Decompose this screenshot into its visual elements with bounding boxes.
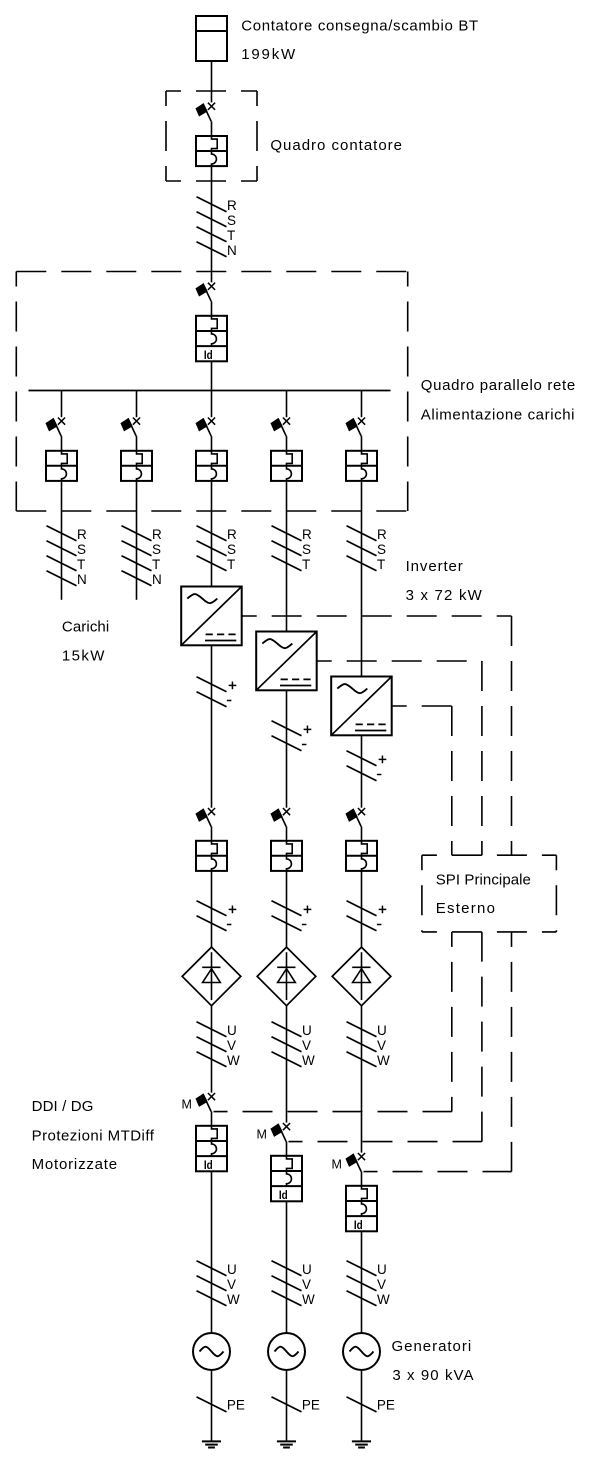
svg-text:S: S	[227, 213, 236, 228]
svg-text:N: N	[227, 243, 237, 258]
svg-text:M: M	[182, 1098, 192, 1112]
svg-text:W: W	[302, 1292, 315, 1307]
svg-text:Protezioni MTDiff: Protezioni MTDiff	[32, 1127, 155, 1144]
svg-text:Id: Id	[204, 1158, 213, 1172]
svg-text:W: W	[377, 1053, 390, 1068]
svg-text:R: R	[77, 527, 87, 542]
svg-text:V: V	[302, 1277, 311, 1292]
svg-text:U: U	[377, 1023, 387, 1038]
svg-text:V: V	[227, 1277, 236, 1292]
svg-text:SPI Principale: SPI Principale	[436, 872, 531, 889]
svg-text:Carichi: Carichi	[62, 618, 109, 635]
svg-text:M: M	[332, 1158, 342, 1172]
svg-text:199kW: 199kW	[241, 46, 296, 63]
svg-text:S: S	[152, 542, 161, 557]
svg-text:U: U	[302, 1023, 312, 1038]
svg-text:S: S	[227, 542, 236, 557]
svg-text:T: T	[377, 557, 385, 572]
svg-text:V: V	[302, 1038, 311, 1053]
svg-text:U: U	[377, 1262, 387, 1277]
svg-text:W: W	[227, 1292, 240, 1307]
svg-text:Quadro contatore: Quadro contatore	[270, 137, 402, 154]
svg-text:T: T	[227, 228, 235, 243]
svg-text:DDI / DG: DDI / DG	[32, 1098, 94, 1115]
svg-text:Motorizzate: Motorizzate	[32, 1156, 118, 1173]
svg-text:R: R	[227, 198, 237, 213]
svg-text:S: S	[77, 542, 86, 557]
svg-text:U: U	[302, 1262, 312, 1277]
svg-text:Contatore consegna/scambio BT: Contatore consegna/scambio BT	[241, 17, 478, 34]
svg-text:T: T	[227, 557, 235, 572]
svg-text:3 x 90 kVA: 3 x 90 kVA	[392, 1367, 473, 1384]
svg-text:Generatori: Generatori	[392, 1338, 472, 1355]
svg-text:R: R	[152, 527, 162, 542]
svg-text:M: M	[257, 1128, 267, 1142]
svg-text:R: R	[227, 527, 237, 542]
svg-text:R: R	[377, 527, 387, 542]
svg-text:U: U	[227, 1023, 237, 1038]
svg-text:15kW: 15kW	[62, 648, 105, 665]
svg-text:T: T	[77, 557, 85, 572]
svg-text:Id: Id	[354, 1218, 363, 1232]
svg-text:Id: Id	[279, 1188, 288, 1202]
svg-text:S: S	[377, 542, 386, 557]
svg-text:W: W	[227, 1053, 240, 1068]
svg-text:S: S	[302, 542, 311, 557]
svg-text:PE: PE	[377, 1398, 395, 1413]
svg-text:W: W	[302, 1053, 315, 1068]
svg-text:V: V	[377, 1277, 386, 1292]
svg-text:Id: Id	[204, 348, 213, 362]
svg-text:R: R	[302, 527, 312, 542]
svg-text:Alimentazione carichi: Alimentazione carichi	[421, 407, 575, 424]
svg-text:T: T	[152, 557, 160, 572]
svg-text:PE: PE	[302, 1398, 320, 1413]
svg-text:V: V	[377, 1038, 386, 1053]
svg-text:Quadro parallelo rete: Quadro parallelo rete	[421, 377, 575, 394]
svg-text:V: V	[227, 1038, 236, 1053]
svg-text:U: U	[227, 1262, 237, 1277]
svg-text:PE: PE	[227, 1398, 245, 1413]
svg-text:N: N	[77, 572, 87, 587]
svg-text:T: T	[302, 557, 310, 572]
svg-text:W: W	[377, 1292, 390, 1307]
svg-text:Inverter: Inverter	[406, 558, 463, 575]
svg-text:N: N	[152, 572, 162, 587]
svg-text:Esterno: Esterno	[436, 900, 495, 917]
svg-text:3 x 72 kW: 3 x 72 kW	[406, 587, 483, 604]
